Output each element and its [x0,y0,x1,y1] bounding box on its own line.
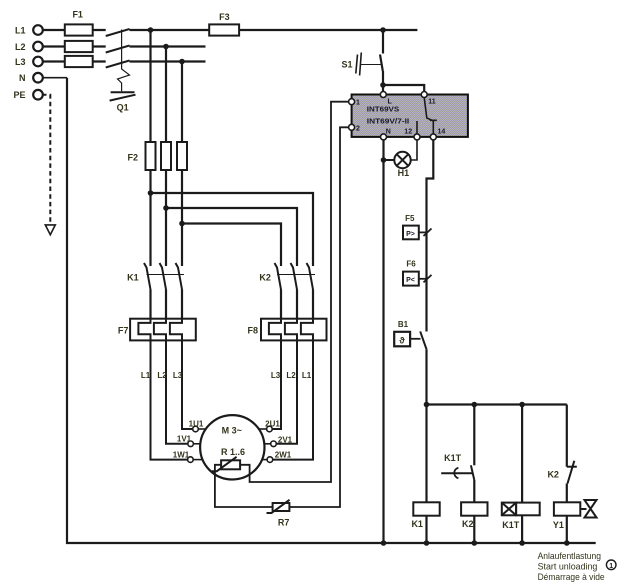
wire K2 branch upper [473,405,475,466]
wire K2 feed L1 [151,193,314,266]
resistor R7 [267,500,290,528]
wire K1 to F7 [151,290,183,319]
node N rail H1 [381,540,387,546]
wire F8 to motor 2U1 [271,340,281,429]
pin 11 [421,92,427,98]
svg-text:1U1: 1U1 [189,420,204,429]
svg-text:PE: PE [13,90,25,100]
terminal L1 [15,25,43,35]
svg-text:R 1..6: R 1..6 [221,447,245,457]
pressure switch F6 [403,259,432,285]
node L1-F2 junction [148,27,154,33]
svg-text:F2: F2 [127,153,138,163]
terminal N [19,73,43,83]
svg-text:M 3~: M 3~ [222,425,242,435]
wire K2 feed L2 [166,208,297,266]
wire control rail [427,403,567,405]
svg-text:11: 11 [428,99,436,106]
pin 1 [349,99,355,105]
thermostat B1 [394,320,427,350]
terminal 1W1 [173,450,203,462]
terminal PE [13,90,42,100]
breaker Q1 [106,29,136,112]
svg-text:P>: P> [406,231,415,238]
terminal L3 [15,57,43,67]
wire N rail bottom [67,78,596,543]
node H1 junction [381,157,387,163]
wire K1 coil to N rail [425,516,427,543]
svg-text:F7: F7 [118,325,129,335]
wire S1 to pin 11 [383,85,424,91]
overload F8 [247,319,326,341]
terminal 2V1 [264,435,292,446]
svg-text:L1: L1 [15,26,26,36]
node L2-F2 junction [163,44,169,50]
timer contact K1T [441,453,474,480]
wire F2 to K1 poles [151,170,183,266]
svg-text:L1: L1 [302,371,312,380]
wire F2 drop L2 [165,47,167,143]
wire L1 rail [42,29,417,31]
note start unloading [538,551,605,583]
contactor K2 [259,263,315,290]
svg-text:F1: F1 [72,10,83,20]
svg-text:F3: F3 [219,12,230,22]
node N rail K2 [472,540,478,546]
ground PE arrow [45,225,55,235]
wire K1 branch [425,405,427,503]
svg-text:L: L [388,99,393,106]
terminal 1U1 [189,420,206,432]
svg-text:2V1: 2V1 [278,435,293,444]
svg-text:2: 2 [356,125,360,132]
coil Y1 [553,502,580,530]
svg-text:F5: F5 [405,214,415,223]
wire K2 to F8 [281,290,313,319]
svg-text:N: N [19,73,26,83]
wire N terminal to drop [42,77,67,79]
svg-text:2W1: 2W1 [275,450,292,459]
node S1 bottom junction [380,82,386,88]
wire F7 to motor 1W1 [141,340,188,459]
pin 2 [349,124,355,130]
coil K1T [502,503,540,530]
node K2 feed L2 [163,205,169,211]
wire N drop [382,140,384,543]
svg-text:2U1: 2U1 [265,420,280,429]
motor M1 [200,415,264,479]
terminal 2U1 [259,420,281,432]
wire K1T coil to N rail [521,515,523,543]
node K2 feed L3 [179,221,185,227]
svg-text:N: N [386,128,391,135]
svg-text:L3: L3 [173,371,183,380]
pin N [381,134,387,140]
svg-text:L3: L3 [271,371,281,380]
wire F7 to motor 1U1 [173,340,193,429]
wire K2 coil to N rail [473,516,475,543]
svg-text:K1: K1 [127,273,139,283]
svg-text:B1: B1 [398,320,409,329]
terminal 2W1 [262,450,292,462]
wire thermistor right to module pin1 [240,102,349,482]
overload F7 [118,319,196,341]
terminal 1V1 [177,435,200,447]
svg-text:14: 14 [438,128,446,135]
pin L [380,92,386,98]
svg-text:K2: K2 [462,519,474,529]
wire S1 to pin L [382,85,384,91]
svg-text:Q1: Q1 [117,102,129,112]
node N rail Y1 [564,540,570,546]
wire Y1 branch lower [566,484,568,503]
node rail K1T [519,402,525,408]
valve symbol Y1 [580,500,596,518]
wire L3 rail [42,60,206,62]
svg-text:1W1: 1W1 [173,450,190,459]
pin 14 [430,134,436,140]
wire thermistor left to R7 [215,465,273,507]
svg-text:L3: L3 [15,57,26,67]
node S1 top junction [380,27,386,33]
wire Y1 coil to N rail [566,516,568,543]
fuse F3 [209,12,239,36]
module U1 INT69VS [349,92,468,140]
svg-text:H1: H1 [398,168,410,178]
svg-text:INT69VS: INT69VS [367,104,399,113]
coil K2 [461,502,487,529]
svg-text:K1T: K1T [502,520,520,530]
switch S1 [341,30,383,85]
wire L2 rail [42,45,206,47]
fuse F2 [127,142,187,170]
svg-text:1V1: 1V1 [177,435,192,444]
svg-text:K1: K1 [411,519,423,529]
wire F2 drop L1 [149,30,151,142]
wire R7 to module pin2 [289,127,348,507]
svg-text:R7: R7 [278,517,290,527]
svg-text:Y1: Y1 [553,520,564,530]
wire K2 feed L3 [182,224,281,267]
svg-text:L1: L1 [141,371,151,380]
terminal L2 [15,42,43,52]
svg-text:1: 1 [609,563,613,570]
wire K2 branch lower [473,480,475,502]
wire K1T branch [521,405,523,503]
svg-text:F8: F8 [247,325,258,335]
node N rail K1 [424,540,430,546]
wire F2 drop L3 [181,62,183,143]
NC contact K2 [547,461,576,484]
module internal changeover contact [424,98,433,121]
node L3-F2 junction [179,59,185,65]
pressure switch F5 [403,214,432,239]
svg-text:K1T: K1T [444,453,462,463]
svg-text:K2: K2 [259,273,271,283]
svg-text:S1: S1 [341,60,352,70]
pin 12 [414,134,420,140]
node K2 feed L1 [148,190,154,196]
svg-text:1: 1 [356,100,360,107]
svg-text:P<: P< [406,277,415,284]
node rail K2 [472,402,478,408]
svg-text:Anlaufentlastung: Anlaufentlastung [538,551,601,562]
wire F8 to motor 2V1 [276,340,297,443]
wire Y1 branch upper [566,405,568,467]
node N rail K1T [519,540,525,546]
wire F7 to motor 1V1 [157,340,187,443]
svg-text:Démarrage à vide: Démarrage à vide [538,572,605,583]
fuse F1 [65,10,93,68]
svg-text:Start unloading: Start unloading [538,562,598,573]
thermistor R1..6 [212,457,240,471]
node rail K1 [424,402,430,408]
coil K1 [411,502,439,529]
wire F8 to motor 2W1 [273,340,313,459]
svg-text:K2: K2 [547,470,559,480]
contactor K1 [127,263,184,290]
svg-text:ϑ: ϑ [399,336,405,346]
svg-text:INT69V/7-II: INT69V/7-II [367,116,409,125]
lamp H1 [384,140,418,178]
wire pin14 control drop [427,140,434,332]
svg-text:L2: L2 [15,42,26,52]
note marker 1 [606,560,616,570]
svg-text:12: 12 [404,128,412,135]
svg-text:F6: F6 [406,259,416,268]
wire B1 to rail [425,350,427,405]
svg-text:L2: L2 [286,371,296,380]
wire PE dashed [42,95,50,222]
svg-text:L2: L2 [157,371,167,380]
